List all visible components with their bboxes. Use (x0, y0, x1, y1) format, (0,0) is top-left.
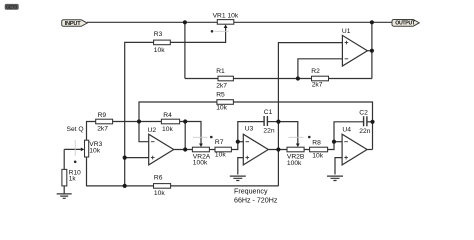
wire VR1 to OUTPUT tag (234, 21, 392, 23)
junction node U3 output (276, 147, 280, 151)
wire R1 right to R2 left (233, 78, 311, 80)
wire R5 right to lowpass rail (233, 102, 372, 122)
resistor R5 (217, 100, 234, 105)
resistor R1 (218, 76, 233, 81)
corner watermark badge (5, 4, 19, 10)
wire output rail vertical (371, 22, 373, 78)
svg-text:R8: R8 (312, 139, 321, 146)
asterisk VR1 (211, 30, 214, 33)
wire U3 non-inverting input to ground (238, 158, 244, 175)
capacitor C2 (364, 116, 367, 126)
svg-text:10k: 10k (215, 152, 226, 159)
wire U4 non-inverting input to ground (335, 158, 342, 175)
svg-text:C2: C2 (359, 109, 368, 116)
svg-text:OUTPUT: OUTPUT (395, 21, 416, 27)
wire U2 inverting input (139, 122, 149, 142)
asterisk VR2A (210, 136, 213, 139)
wire VR2B right to R8 left (304, 149, 310, 151)
wire C2 left arm (334, 122, 363, 142)
ground under U3 input (230, 176, 246, 180)
resistor R9 (96, 119, 113, 124)
junction node input/R1 (183, 20, 187, 24)
svg-text:10k: 10k (154, 47, 165, 54)
wire bottom feedback left of R6 (87, 157, 154, 186)
resistor R7 (215, 147, 231, 152)
svg-text:2k7: 2k7 (97, 125, 108, 132)
svg-text:GET3: GET3 (6, 5, 18, 10)
svg-text:10k: 10k (89, 148, 100, 155)
potentiometer VR2A adjust mark (193, 136, 208, 138)
svg-text:U4: U4 (342, 127, 351, 134)
potentiometer VR2B body (287, 147, 304, 152)
asterisk VR3 (74, 161, 77, 164)
wire node line R9 to R4 (113, 121, 162, 123)
resistor R6 (154, 184, 171, 189)
OUTPUT port tag (392, 20, 419, 27)
op-amp U4 (342, 134, 367, 165)
svg-text:R1: R1 (216, 68, 225, 75)
potentiometer VR3 body (85, 140, 89, 157)
wire U1 output (367, 50, 372, 52)
wire R3 left to summing rail (125, 42, 154, 186)
wire U4 inverting input (334, 141, 342, 143)
potentiometer VR3 wiper arrow (81, 148, 85, 152)
svg-text:R4: R4 (163, 112, 172, 119)
svg-text:Frequency: Frequency (234, 188, 268, 196)
wire U1 inverting input from R1-R2 node (298, 59, 343, 79)
svg-text:U3: U3 (245, 126, 254, 133)
resistor R2 (312, 76, 329, 81)
wire R8 right up to U4 inverting node (328, 142, 334, 150)
junction node C1 right (276, 120, 280, 124)
resistor R10 (62, 169, 67, 186)
wire U2 output to VR2A left (174, 149, 193, 151)
junction node C2 right (370, 120, 374, 124)
wire input line to VR1 (87, 21, 217, 23)
asterisk VR2B (308, 136, 311, 139)
wire U3 output to VR2B left (268, 149, 287, 151)
wire R4 right node down to U2 output (184, 122, 186, 150)
wire C1 right arm (267, 121, 278, 123)
ground under R10 (57, 194, 72, 198)
wire U3 output down to bottom feedback (277, 150, 279, 186)
op-amp U3 (243, 134, 268, 165)
svg-text:R2: R2 (311, 68, 320, 75)
resistor R4 (161, 119, 179, 124)
wire R9 left to VR3 top (87, 122, 96, 141)
potentiometer VR1 body (217, 20, 234, 25)
resistor R8 (310, 147, 328, 152)
svg-text:INPUT: INPUT (65, 21, 82, 27)
junction node U4 inverting (332, 140, 336, 144)
svg-text:Set Q: Set Q (67, 126, 84, 133)
svg-text:R9: R9 (98, 112, 107, 119)
wire C2 right arm (367, 121, 373, 123)
svg-text:10k: 10k (154, 190, 165, 197)
op-amp U1 (342, 35, 367, 66)
resistor R3 (154, 40, 171, 45)
wire VR3 wiper to R10 (64, 149, 81, 169)
wire bottom feedback R6 right (171, 185, 279, 187)
svg-text:R6: R6 (154, 175, 163, 182)
svg-text:100k: 100k (193, 160, 208, 167)
ground under U4 input (327, 176, 343, 180)
svg-text:10k: 10k (312, 152, 323, 159)
svg-text:C1: C1 (264, 109, 273, 116)
wire R2 right to output rail (329, 78, 372, 80)
svg-text:R5: R5 (216, 92, 225, 99)
wire VR2A right to R7 left (209, 149, 215, 151)
junction node U2 output (183, 147, 187, 151)
svg-text:R3: R3 (154, 31, 163, 38)
junction node rail / U2 non-inverting (123, 156, 127, 160)
wire to R1 left (185, 78, 218, 80)
svg-text:10k: 10k (162, 126, 173, 133)
wire U3 inverting input (238, 141, 244, 143)
svg-text:R7: R7 (215, 139, 224, 146)
potentiometer VR1 adjust mark (215, 30, 229, 32)
potentiometer VR2A wiper arrow (199, 144, 203, 148)
potentiometer VR2A body (192, 147, 209, 152)
potentiometer VR2B wiper arrow (296, 144, 300, 148)
wire R5 left down to U2 inverting node (139, 102, 217, 122)
wire C1 node down to U3 output (277, 122, 279, 150)
svg-text:22n: 22n (263, 128, 274, 135)
wire lowpass rail to U4 output (372, 122, 374, 150)
junction node R1-R2 / U1 inverting (296, 76, 300, 80)
junction node R4 right (183, 119, 187, 123)
junction node U3 inverting (236, 140, 240, 144)
capacitor C1 (264, 116, 267, 126)
wire R10 to ground (63, 186, 65, 194)
potentiometer VR3 adjust mark (74, 140, 76, 156)
wire U1 non-inverting input down to C1 node (278, 43, 342, 122)
svg-text:U2: U2 (148, 127, 157, 134)
junction node rail / bottom feedback (123, 184, 127, 188)
svg-text:10k: 10k (216, 104, 227, 111)
wire C1 node to VR2B wiper (278, 122, 297, 144)
wire U4 output (367, 149, 372, 151)
potentiometer VR2B adjust mark (289, 136, 304, 138)
wire R3 right to VR1 wiper (170, 27, 225, 42)
wire input node down to R1 (184, 22, 186, 78)
svg-text:1k: 1k (69, 175, 77, 182)
svg-text:100k: 100k (287, 160, 302, 167)
svg-text:22n: 22n (359, 128, 370, 135)
potentiometer VR1 wiper arrow (224, 24, 228, 28)
junction node output tag tee (370, 20, 374, 24)
svg-text:U1: U1 (342, 28, 351, 35)
junction node U2 inverting summing (137, 119, 141, 123)
svg-text:VR1 10k: VR1 10k (213, 12, 239, 19)
wire U2 non-inverting input from rail (125, 157, 149, 159)
wire R4 right to VR2A wiper (180, 122, 201, 144)
svg-text:2k7: 2k7 (216, 82, 227, 89)
INPUT port tag (62, 20, 87, 27)
svg-text:2k7: 2k7 (312, 82, 323, 89)
op-amp U2 (149, 134, 174, 165)
wire R7 right up to U3 inverting node (231, 142, 237, 150)
svg-text:66Hz - 720Hz: 66Hz - 720Hz (234, 197, 278, 205)
junction node U1 output (370, 49, 374, 53)
wire C1 left arm (238, 122, 264, 142)
